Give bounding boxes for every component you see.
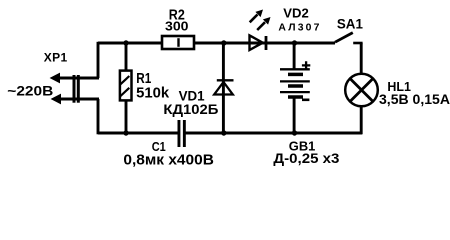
svg-text:3,5В 0,15А: 3,5В 0,15А	[379, 92, 450, 107]
svg-text:300: 300	[165, 18, 189, 33]
svg-text:~220В: ~220В	[7, 82, 53, 98]
svg-text:КД102Б: КД102Б	[163, 102, 218, 117]
svg-text:Д-0,25 х3: Д-0,25 х3	[273, 151, 340, 166]
svg-text:VD2: VD2	[283, 7, 309, 21]
svg-text:SA1: SA1	[337, 17, 363, 32]
svg-text:0,8мк х400В: 0,8мк х400В	[123, 151, 214, 168]
svg-text:510k: 510k	[136, 85, 170, 101]
svg-text:АЛ307: АЛ307	[278, 23, 319, 34]
svg-text:ХР1: ХР1	[44, 50, 68, 64]
